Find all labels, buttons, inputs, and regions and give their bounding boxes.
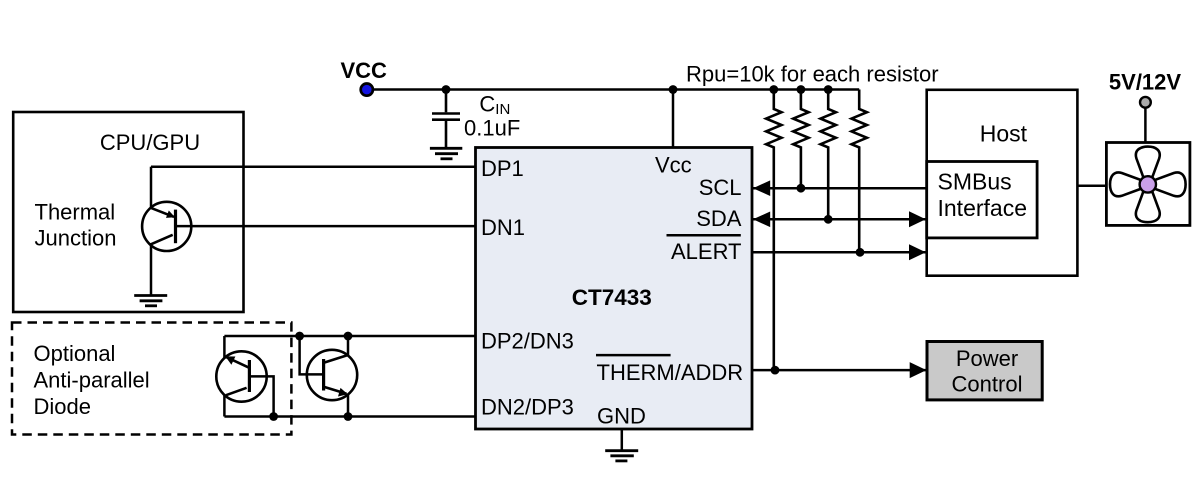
svg-text:CPU/GPU: CPU/GPU — [100, 130, 200, 155]
wire Host to fan — [1077, 184, 1106, 187]
wire SCL — [753, 187, 927, 190]
junction R1 bottom — [771, 366, 780, 375]
arrow THERM into Power Control — [910, 362, 927, 378]
svg-text:Interface: Interface — [938, 195, 1028, 221]
wire Q3 emitter down — [347, 394, 350, 417]
transistor Q2 emitter arrow — [225, 356, 235, 364]
fan hub — [1140, 176, 1156, 192]
node VCC terminal — [361, 84, 373, 96]
transistor Q2 — [216, 351, 266, 401]
wire fan stem — [1144, 108, 1147, 148]
dashed box optional anti-parallel diode — [12, 323, 291, 435]
svg-text:DP2/DN3: DP2/DN3 — [481, 329, 574, 354]
wire DP2/DN3 — [224, 335, 475, 338]
capacitor CIN — [432, 90, 460, 148]
wire ALERT — [753, 251, 927, 254]
wire Q1 collector up — [150, 167, 153, 209]
wire VCC top rail — [372, 88, 859, 91]
transistor Q3 emitter arrow — [338, 388, 348, 397]
Host box — [927, 90, 1078, 276]
junction R3 top — [824, 85, 833, 94]
junction Q3 collector top — [344, 332, 353, 341]
wire DP1 — [151, 165, 476, 168]
junction R4 bottom — [856, 248, 865, 257]
CPU/GPU box — [13, 112, 243, 312]
junction Q3 base top — [295, 332, 304, 341]
resistor R1 — [766, 90, 781, 371]
svg-text:Power: Power — [956, 346, 1018, 371]
wire Q1 emitter down — [150, 244, 153, 295]
ground (IC GND) — [605, 451, 638, 461]
svg-text:SDA: SDA — [696, 206, 742, 231]
svg-text:SCL: SCL — [699, 175, 742, 200]
wire GND pin — [621, 429, 624, 451]
svg-text:Thermal: Thermal — [35, 200, 116, 225]
junction Q2 base bottom — [269, 412, 278, 421]
wire DN2/DP3 — [224, 415, 475, 418]
svg-text:GND: GND — [597, 404, 646, 429]
arrow SDA into IC — [753, 212, 770, 228]
junction R1 top — [769, 85, 778, 94]
transistor Q3 — [307, 350, 357, 400]
arrow SDA into SMBus — [909, 211, 926, 227]
svg-text:Anti-parallel: Anti-parallel — [34, 367, 150, 392]
svg-text:SMBus: SMBus — [938, 169, 1012, 195]
svg-text:Optional: Optional — [34, 341, 116, 366]
svg-text:Vcc: Vcc — [655, 153, 692, 178]
svg-text:DN2/DP3: DN2/DP3 — [481, 395, 574, 420]
svg-text:Control: Control — [952, 372, 1023, 397]
arrow ALERT into Host — [909, 244, 926, 260]
resistor R4 — [852, 90, 867, 253]
wire DN1 — [176, 225, 476, 228]
fan box — [1106, 143, 1190, 226]
junction Vcc pin drop — [669, 85, 678, 94]
svg-text:ALERT: ALERT — [671, 239, 742, 264]
arrow SCL into IC — [753, 180, 770, 196]
wire Q3 collector up — [347, 336, 350, 356]
resistor R3 — [821, 90, 836, 220]
svg-text:5V/12V: 5V/12V — [1109, 70, 1181, 95]
wire Q2 base tie — [250, 376, 274, 416]
overline ALERT — [667, 234, 741, 237]
ground (CIN) — [430, 148, 462, 159]
svg-text:DP1: DP1 — [481, 156, 524, 181]
svg-text:Diode: Diode — [34, 394, 91, 419]
resistor R2 — [793, 90, 808, 189]
svg-text:Junction: Junction — [35, 226, 117, 251]
wire Q2 emitter up — [223, 336, 226, 358]
svg-text:Host: Host — [980, 121, 1028, 147]
wire Q3 base tie — [300, 336, 324, 374]
svg-text:VCC: VCC — [341, 58, 388, 83]
junction at CIN — [442, 85, 451, 94]
svg-text:DN1: DN1 — [481, 215, 525, 240]
junction R2 bottom — [797, 184, 806, 193]
ground (Q1) — [134, 296, 167, 306]
svg-text:0.1uF: 0.1uF — [464, 116, 520, 141]
junction R3 bottom — [824, 215, 833, 224]
Power Control box — [927, 342, 1042, 400]
overline THERM — [596, 354, 671, 357]
transistor Q1 — [142, 202, 191, 251]
SMBus Interface box — [927, 162, 1037, 238]
IC CT7433 — [476, 148, 753, 430]
wire Vcc pin drop — [672, 90, 675, 148]
wire THERM/ADDR — [753, 369, 927, 372]
svg-text:Rpu=10k for each resistor: Rpu=10k for each resistor — [686, 62, 939, 87]
wire SDA — [753, 218, 927, 221]
junction Q3 emitter bottom — [344, 412, 353, 421]
junction R2 top — [797, 85, 806, 94]
node 5V terminal — [1140, 97, 1151, 108]
wire Q2 collector down — [223, 395, 226, 417]
transistor Q1 emitter arrow — [166, 211, 175, 218]
fan blades — [1110, 147, 1186, 223]
svg-text:THERM/ADDR: THERM/ADDR — [597, 360, 744, 385]
svg-text:CT7433: CT7433 — [572, 285, 652, 310]
